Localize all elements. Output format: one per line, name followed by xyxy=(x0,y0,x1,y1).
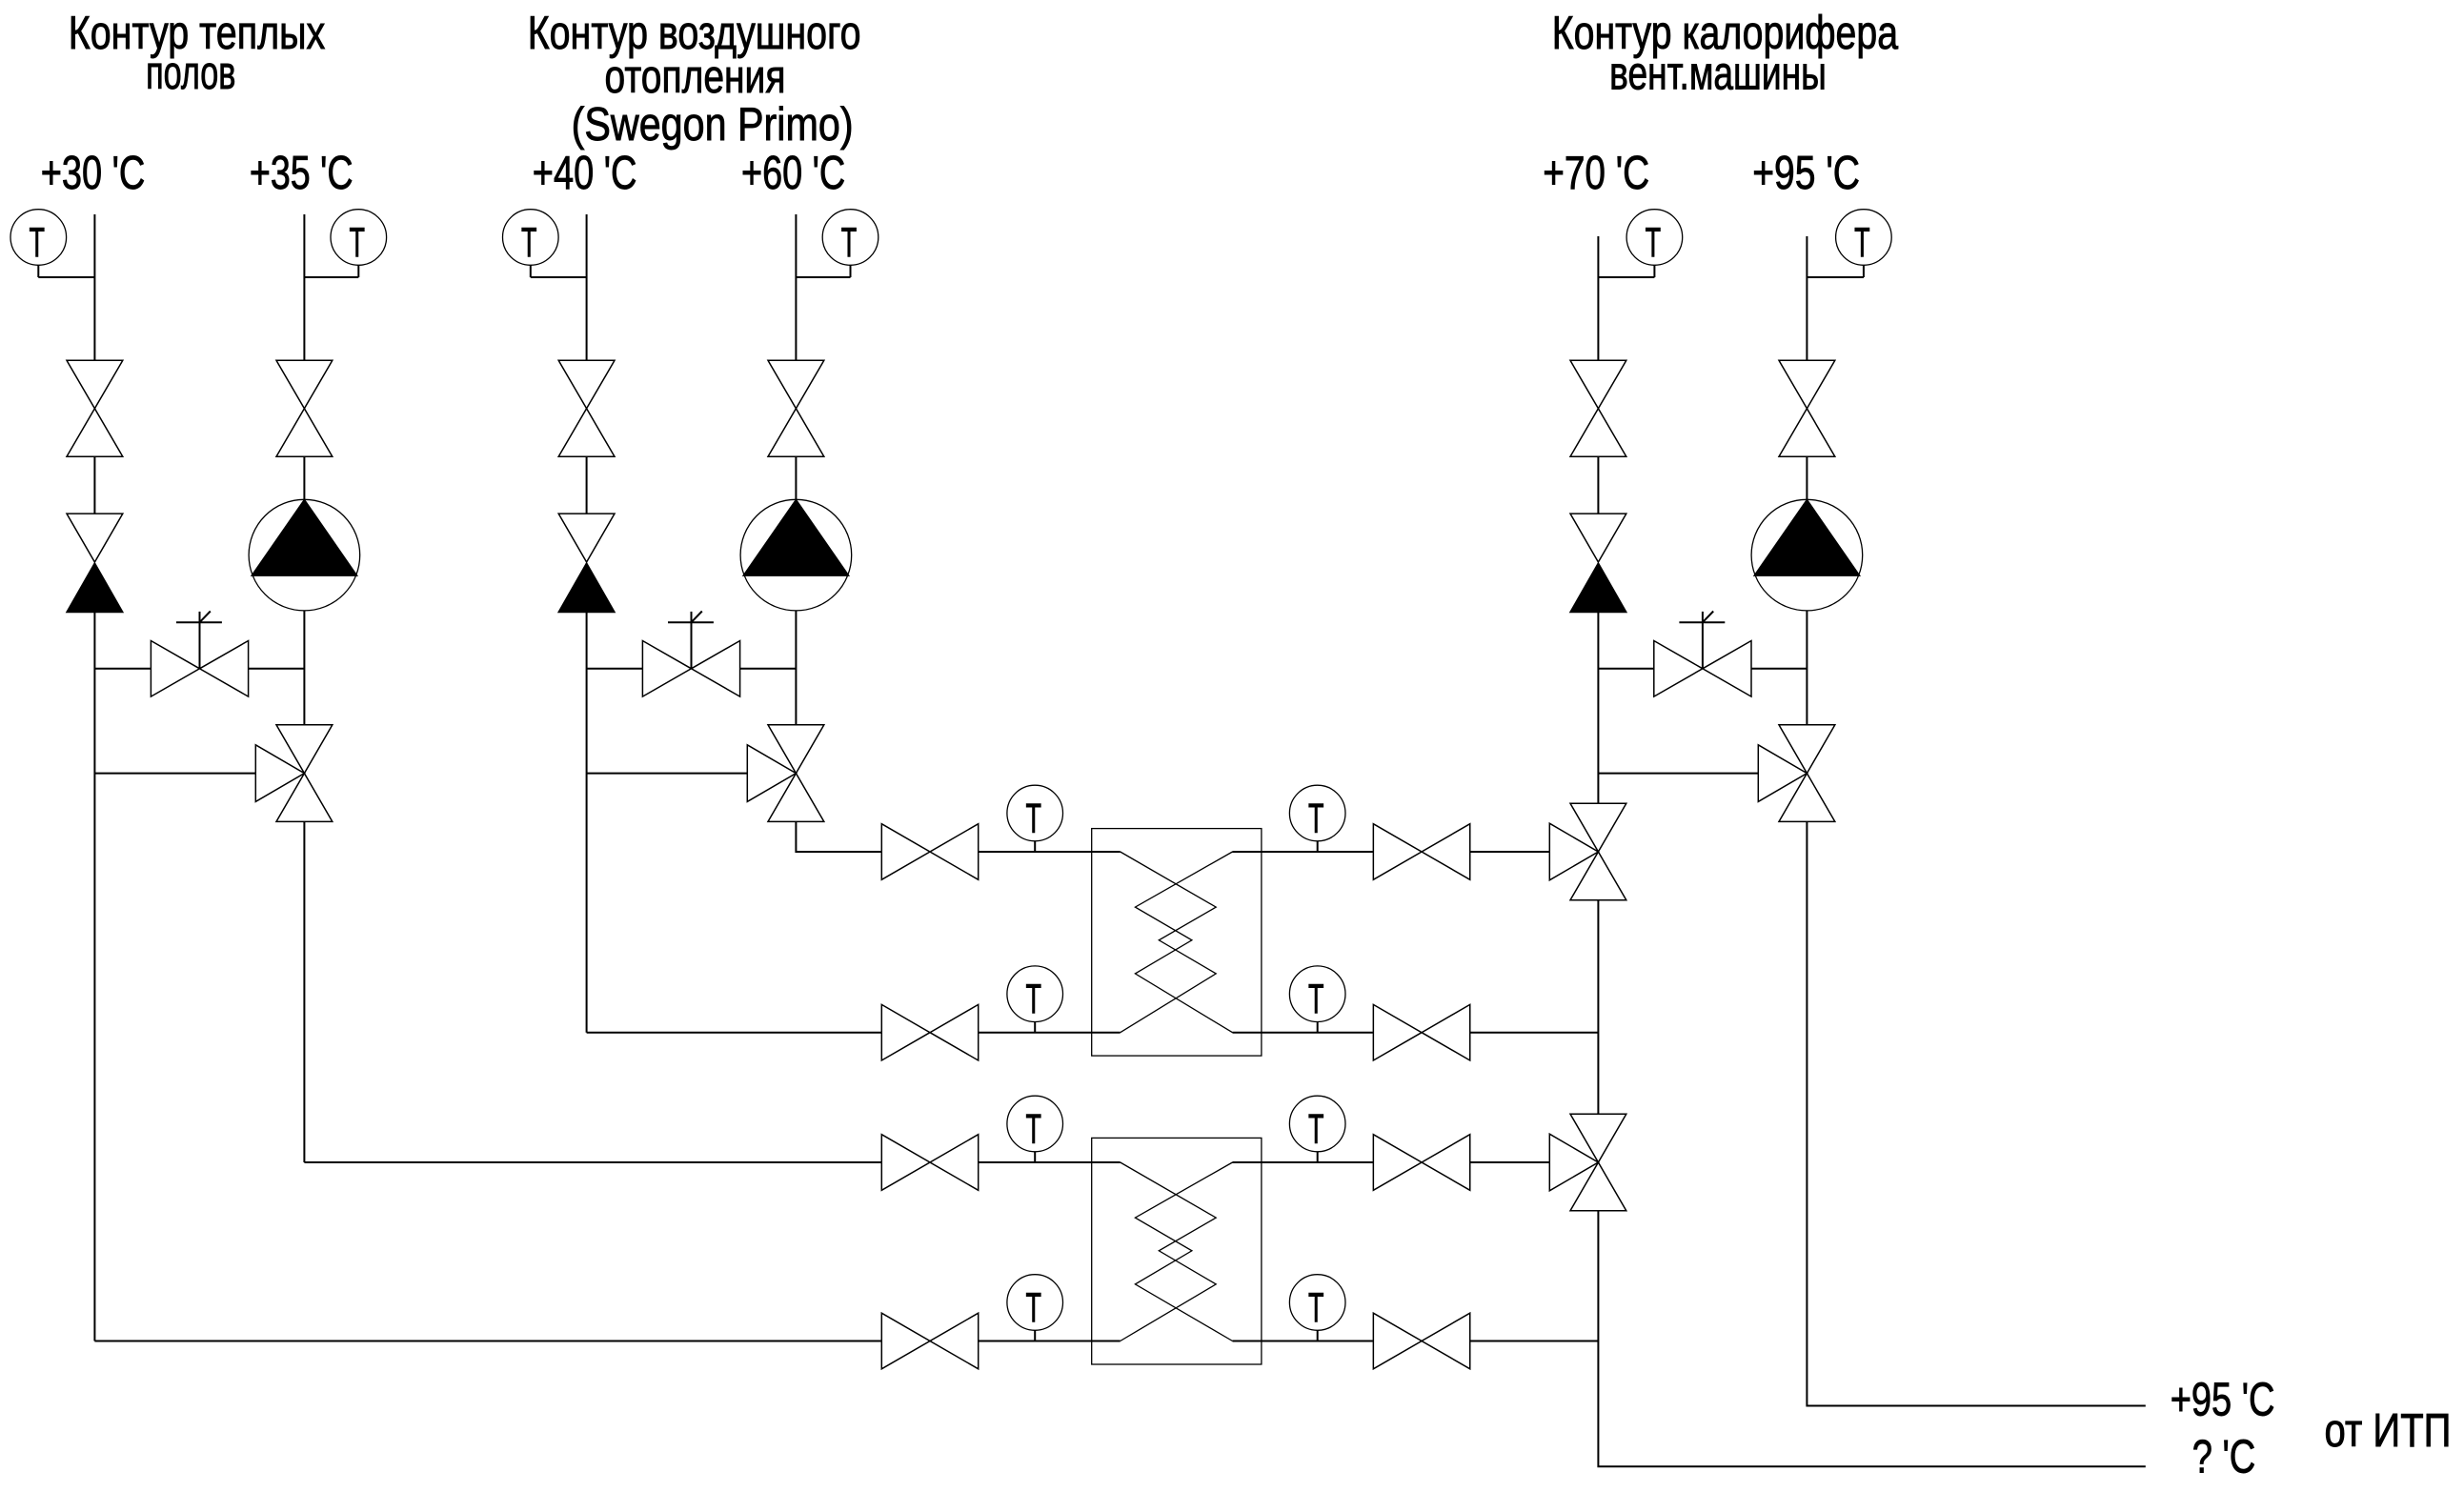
valve c3 return isolation xyxy=(1570,360,1626,456)
thermometer row 3 heat-exchanger 2 hot right xyxy=(1289,1096,1345,1162)
balancing valve c3 xyxy=(1654,612,1751,697)
svg-text:T: T xyxy=(1308,796,1324,842)
label +95 C from ITP xyxy=(2171,1374,2275,1426)
wire c2 supply stub to row 1 xyxy=(796,821,881,852)
label ot ITP xyxy=(2325,1404,2452,1457)
wire c3 bypass right xyxy=(1751,668,1807,670)
label +35 C xyxy=(250,147,353,199)
wire c1 supply pipe to pump xyxy=(303,456,305,499)
wire c3 return pipe lower and to ITP xyxy=(1598,1211,2145,1466)
balancing valve c1 xyxy=(151,612,248,697)
svg-text:+40 'C: +40 'C xyxy=(533,147,637,199)
thermometer c1 supply xyxy=(304,210,386,277)
wire row 4 heat-exchanger 2 cold into exchanger xyxy=(979,1341,1121,1342)
three-way valve c2 xyxy=(747,725,824,822)
check valve c3 return xyxy=(1570,514,1626,612)
wire row 1 heat-exchanger 1 hot right xyxy=(1470,851,1549,853)
pump c1 xyxy=(249,499,360,611)
wire c1 supply pipe upper xyxy=(303,214,305,360)
valve c2 return isolation xyxy=(558,360,615,456)
three-way valve c3 heat-exchanger 1 xyxy=(1549,803,1626,900)
wire c2 return pipe lower xyxy=(586,613,588,1033)
thermometer c3 return xyxy=(1598,210,1682,277)
wire row 2 heat-exchanger 1 cold into exchanger xyxy=(979,1032,1121,1034)
svg-text:T: T xyxy=(1646,219,1662,266)
title circuit 2 line 3 xyxy=(572,98,854,151)
wire row 3 heat-exchanger 2 hot right xyxy=(1470,1161,1549,1163)
label +40 C xyxy=(533,147,637,199)
thermometer c2 return xyxy=(503,210,587,277)
thermometer row 2 heat-exchanger 1 cold right xyxy=(1289,966,1345,1033)
wire row 3 heat-exchanger 2 hot left xyxy=(304,1161,881,1163)
thermometer c2 supply xyxy=(796,210,878,277)
three-way valve c1 xyxy=(255,725,333,822)
svg-text:от ИТП: от ИТП xyxy=(2325,1404,2452,1457)
wire c1 supply pipe below three-way xyxy=(303,821,305,1162)
valve c1 supply isolation xyxy=(276,360,333,456)
title circuit 2 line 2 xyxy=(605,50,786,103)
wire c2 bypass right xyxy=(740,668,797,670)
wire row 4 heat-exchanger 2 cold left xyxy=(94,1341,881,1342)
valve row 2 heat-exchanger 1 cold left isolation xyxy=(881,1004,978,1060)
valve row 1 heat-exchanger 1 hot right isolation xyxy=(1373,824,1469,880)
valve row 1 heat-exchanger 1 hot left isolation xyxy=(881,824,978,880)
svg-text:T: T xyxy=(521,219,537,266)
wire c3 mixing line xyxy=(1598,773,1758,775)
wire c1 return pipe lower xyxy=(93,613,95,1341)
valve row 2 heat-exchanger 1 cold right isolation xyxy=(1373,1004,1469,1060)
pump c3 xyxy=(1751,499,1863,611)
thermometer row 4 heat-exchanger 2 cold left xyxy=(1007,1275,1063,1341)
pump c2 xyxy=(740,499,852,611)
title circuit 2 line 1 xyxy=(528,7,861,59)
title circuit 3 line 2 xyxy=(1609,48,1827,100)
svg-text:T: T xyxy=(350,219,366,266)
label +70 C xyxy=(1543,147,1649,199)
wire c1 mixing line xyxy=(94,773,255,775)
title circuit 1 line 2 xyxy=(146,47,235,99)
wire c2 supply pipe to pump xyxy=(795,456,797,499)
wire c3 return pipe to three-way 1 xyxy=(1597,613,1599,804)
wire c2 bypass left xyxy=(587,668,643,670)
svg-text:T: T xyxy=(1308,976,1324,1022)
valve c2 supply isolation xyxy=(768,360,824,456)
wire row 4 heat-exchanger 2 cold right xyxy=(1470,1341,1598,1342)
wire row 2 heat-exchanger 1 cold out of exchanger xyxy=(1233,1032,1373,1034)
wire c1 bypass right xyxy=(249,668,305,670)
wire c3 supply pipe upper xyxy=(1806,236,1808,360)
thermometer c3 supply xyxy=(1807,210,1891,277)
wire c1 supply pipe below pump xyxy=(303,611,305,725)
svg-text:T: T xyxy=(1025,976,1041,1022)
valve row 3 heat-exchanger 2 hot right isolation xyxy=(1373,1135,1469,1191)
wire row 1 heat-exchanger 1 hot out of exchanger xyxy=(1233,851,1373,853)
wire c2 return pipe mid xyxy=(586,456,588,514)
thermometer c1 return xyxy=(10,210,94,277)
valve row 4 heat-exchanger 2 cold right isolation xyxy=(1373,1313,1469,1369)
label +30 C xyxy=(41,147,146,199)
wire c3 supply pipe to pump xyxy=(1806,456,1808,499)
svg-text:T: T xyxy=(1308,1106,1324,1153)
wire c3 supply pipe below pump xyxy=(1806,611,1808,725)
svg-text:T: T xyxy=(30,219,46,266)
svg-text:+95 'C: +95 'C xyxy=(1752,147,1860,199)
label ? C to ITP xyxy=(2192,1431,2256,1483)
title circuit 3 line 1 xyxy=(1552,7,1899,59)
wire c1 return pipe mid xyxy=(93,456,95,514)
svg-text:(Swegon Primo): (Swegon Primo) xyxy=(572,98,854,151)
svg-text:+35 'C: +35 'C xyxy=(250,147,353,199)
wire row 1 heat-exchanger 1 hot left xyxy=(796,851,881,853)
svg-text:T: T xyxy=(1854,219,1870,266)
label +95 C xyxy=(1752,147,1860,199)
wire c1 return pipe upper xyxy=(93,214,95,360)
valve row 4 heat-exchanger 2 cold left isolation xyxy=(881,1313,978,1369)
label +60 C xyxy=(741,147,845,199)
svg-text:+70 'C: +70 'C xyxy=(1543,147,1649,199)
wire c2 return pipe upper xyxy=(586,214,588,360)
check valve c1 return xyxy=(67,514,123,612)
thermometer row 1 heat-exchanger 1 hot right xyxy=(1289,785,1345,852)
wire row 2 heat-exchanger 1 cold left xyxy=(587,1032,882,1034)
svg-text:? 'C: ? 'C xyxy=(2192,1431,2256,1483)
thermometer row 1 heat-exchanger 1 hot left xyxy=(1007,785,1063,852)
svg-text:полов: полов xyxy=(146,47,235,99)
thermometer row 2 heat-exchanger 1 cold left xyxy=(1007,966,1063,1033)
valve c1 return isolation xyxy=(67,360,123,456)
wire c1 bypass left xyxy=(94,668,151,670)
thermometer row 3 heat-exchanger 2 hot left xyxy=(1007,1096,1063,1162)
title circuit 1 line 1 xyxy=(69,7,326,59)
wire c3 supply pipe from ITP xyxy=(1807,821,2145,1405)
svg-text:отопления: отопления xyxy=(605,50,786,103)
wire c3 return pipe between three-ways xyxy=(1597,900,1599,1114)
svg-text:+95 'C: +95 'C xyxy=(2171,1374,2275,1426)
wire c3 bypass left xyxy=(1598,668,1653,670)
valve row 3 heat-exchanger 2 hot left isolation xyxy=(881,1135,978,1191)
valve c3 supply isolation xyxy=(1779,360,1835,456)
svg-text:+30 'C: +30 'C xyxy=(41,147,146,199)
wire row 1 heat-exchanger 1 hot into exchanger xyxy=(979,851,1121,853)
wire c2 supply pipe upper xyxy=(795,214,797,360)
heat exchanger 2 xyxy=(1092,1138,1262,1364)
balancing valve c2 xyxy=(642,612,739,697)
heat exchanger 1 xyxy=(1092,829,1262,1057)
svg-text:T: T xyxy=(1025,796,1041,842)
wire c3 return pipe upper xyxy=(1597,236,1599,360)
wire row 4 heat-exchanger 2 cold out of exchanger xyxy=(1233,1341,1373,1342)
wire row 2 heat-exchanger 1 cold right xyxy=(1470,1032,1598,1034)
svg-text:T: T xyxy=(1025,1106,1041,1153)
wire row 3 heat-exchanger 2 hot out of exchanger xyxy=(1233,1161,1373,1163)
wire c3 return pipe mid xyxy=(1597,456,1599,514)
svg-text:T: T xyxy=(841,219,858,266)
svg-text:вент.машины: вент.машины xyxy=(1609,48,1827,100)
svg-text:T: T xyxy=(1308,1284,1324,1331)
wire c2 supply pipe below pump xyxy=(795,611,797,725)
thermometer row 4 heat-exchanger 2 cold right xyxy=(1289,1275,1345,1341)
three-way valve c3 heat-exchanger 2 xyxy=(1549,1114,1626,1211)
wire c2 mixing line xyxy=(587,773,748,775)
three-way valve c3 xyxy=(1758,725,1835,822)
wire row 3 heat-exchanger 2 hot into exchanger xyxy=(979,1161,1121,1163)
svg-text:T: T xyxy=(1025,1284,1041,1331)
svg-text:+60 'C: +60 'C xyxy=(741,147,845,199)
check valve c2 return xyxy=(558,514,615,612)
